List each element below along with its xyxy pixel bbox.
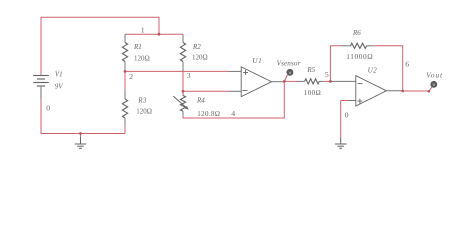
svg-text:2: 2 — [129, 72, 133, 81]
svg-text:V1: V1 — [55, 70, 63, 78]
svg-text:5: 5 — [325, 70, 329, 79]
svg-text:R2: R2 — [192, 43, 201, 51]
svg-text:U1: U1 — [252, 57, 262, 65]
svg-text:0: 0 — [345, 110, 349, 119]
svg-text:R3: R3 — [137, 97, 147, 105]
svg-text:U2: U2 — [368, 67, 377, 75]
svg-text:9V: 9V — [55, 82, 64, 90]
svg-text:V: V — [432, 82, 435, 87]
svg-text:Vout: Vout — [426, 71, 443, 79]
svg-text:3: 3 — [187, 71, 191, 80]
svg-text:6: 6 — [405, 59, 409, 68]
svg-text:R4: R4 — [196, 97, 205, 105]
svg-text:1: 1 — [141, 25, 145, 34]
svg-text:4: 4 — [231, 109, 235, 118]
svg-text:R5: R5 — [306, 66, 315, 74]
svg-text:Vsensor: Vsensor — [277, 59, 301, 67]
svg-text:11000Ω: 11000Ω — [346, 52, 373, 61]
svg-text:120.8Ω: 120.8Ω — [197, 110, 220, 118]
svg-text:V: V — [289, 70, 292, 75]
svg-text:120Ω: 120Ω — [136, 108, 152, 116]
svg-text:100Ω: 100Ω — [304, 89, 321, 97]
svg-text:R1: R1 — [133, 43, 142, 51]
svg-text:0: 0 — [46, 104, 50, 113]
svg-text:R6: R6 — [352, 29, 361, 37]
svg-text:120Ω: 120Ω — [134, 54, 150, 62]
svg-text:120Ω: 120Ω — [192, 54, 208, 62]
